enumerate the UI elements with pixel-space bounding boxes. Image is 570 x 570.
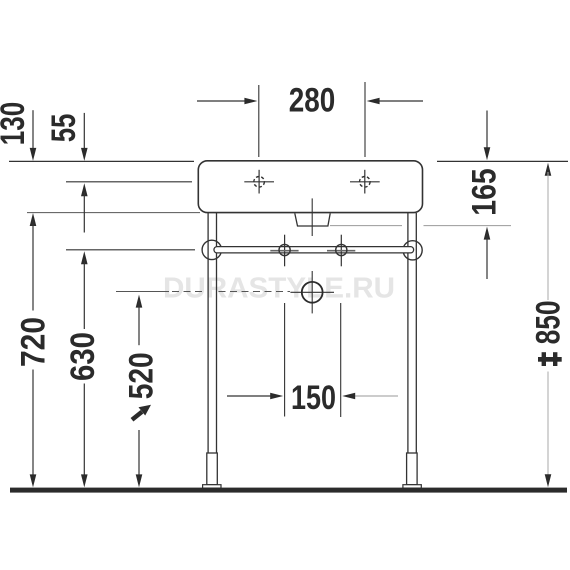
dimension 165: [466, 111, 504, 280]
svg-text:150: 150: [291, 379, 336, 417]
reference line faucet-level: [66, 181, 192, 183]
right leg: [403, 213, 421, 488]
reference line drain-level: [116, 291, 169, 293]
dimension 630: [64, 251, 102, 487]
left leg: [203, 213, 221, 488]
plus-minus symbol of 850: [538, 352, 562, 366]
floor line: [10, 488, 567, 493]
dimension 520: [122, 295, 160, 488]
reference line sink-top-left: [9, 160, 194, 162]
svg-text:520: 520: [122, 352, 160, 399]
dimension 720: [15, 213, 53, 487]
reference line sink-top-right: [437, 160, 568, 162]
reference line rail-level: [66, 249, 195, 251]
reference line outlet-level-right: [330, 225, 402, 227]
svg-text:130: 130: [0, 102, 32, 146]
svg-text:850: 850: [530, 300, 568, 344]
rail mounting hole right: [327, 235, 355, 267]
dashed centerline drain-level: [172, 291, 206, 293]
svg-text:720: 720: [15, 317, 53, 367]
towel rail tube: [214, 247, 414, 253]
svg-text:165: 165: [466, 168, 504, 216]
washbasin outline: [198, 161, 422, 213]
reference line basin-underside: [27, 212, 200, 214]
dimension 150: [227, 303, 398, 417]
dimension 130: [0, 102, 36, 161]
rail end circle left: [202, 240, 221, 259]
drain hole: [290, 271, 334, 313]
svg-text:280: 280: [289, 82, 336, 120]
overflow slot: [295, 198, 330, 236]
dimension 850: [530, 163, 568, 487]
dimension 55: [45, 113, 88, 233]
svg-text:55: 55: [45, 114, 83, 142]
faucet hole left: [244, 170, 274, 194]
svg-text:630: 630: [64, 332, 102, 381]
rail mounting hole left: [270, 235, 298, 267]
rail end circle right: [403, 241, 422, 260]
faucet hole right: [350, 170, 380, 194]
leader arrow 520: [132, 405, 151, 420]
svg-text:DURASTYLE.RU: DURASTYLE.RU: [163, 273, 395, 305]
dimension 280: [197, 82, 423, 157]
